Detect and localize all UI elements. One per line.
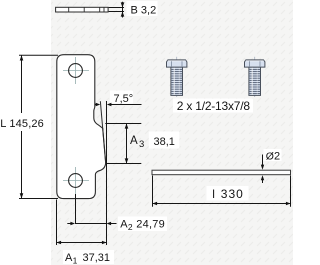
tab bent edge line 7.5deg [100, 101, 105, 163]
hatched drawing area [51, 0, 293, 265]
top hole center lines [63, 57, 89, 84]
bottom hole center lines [63, 167, 89, 194]
dimension B extension lines [109, 2, 124, 18]
dimension l 330 arrows [153, 202, 158, 205]
svg-text:330: 330 [221, 187, 243, 201]
dimension 7.5deg lines [95, 104, 142, 106]
plate outline with bent tab [57, 55, 106, 199]
svg-text:l: l [212, 187, 215, 201]
dimension A1 lines [57, 200, 107, 246]
white label boxes [127, 1, 158, 16]
svg-text:Ø: Ø [266, 150, 274, 162]
svg-text:3: 3 [139, 139, 144, 150]
long bar [152, 170, 291, 175]
svg-text:7,5°: 7,5° [114, 93, 134, 105]
dimension L arrows [20, 55, 24, 60]
bolt 2 centerline [254, 57, 256, 97]
dimension A1 arrows [57, 241, 62, 244]
vertical reference / extension line at tab tip [106, 101, 108, 245]
svg-text:37,31: 37,31 [83, 252, 111, 264]
plate top-view bar [56, 7, 109, 12]
bolt 1 [167, 60, 187, 95]
dimension A2 arrows [70, 222, 75, 225]
dimension L extension lines [19, 55, 58, 198]
top hole [69, 64, 83, 78]
dimension A3 extension lines [105, 124, 141, 164]
bar segment lines [69, 7, 104, 12]
dimension diameter 2 arrows [262, 155, 264, 184]
svg-text:38,1: 38,1 [154, 136, 175, 148]
dimension B arrows [121, 2, 125, 7]
bolt 1 centerline [176, 57, 178, 97]
svg-text:1: 1 [73, 256, 78, 265]
dimension 7.5deg arrows [96, 103, 101, 106]
extension line from bottom hole centre to A2 [75, 194, 77, 224]
svg-text:2: 2 [128, 222, 133, 232]
svg-text:B 3,2: B 3,2 [131, 5, 157, 17]
svg-text:2: 2 [274, 150, 280, 162]
dimension A3 arrows [125, 124, 129, 129]
svg-text:24,79: 24,79 [136, 219, 164, 231]
bottom hole [69, 174, 83, 188]
bolt 2 [245, 60, 265, 95]
dimension l 330 lines [153, 176, 291, 207]
dimension A2 lines [67, 223, 116, 225]
svg-text:L 145,26: L 145,26 [0, 118, 44, 130]
svg-text:2 x 1/2-13x7/8: 2 x 1/2-13x7/8 [177, 99, 251, 113]
svg-text:A: A [130, 135, 138, 147]
